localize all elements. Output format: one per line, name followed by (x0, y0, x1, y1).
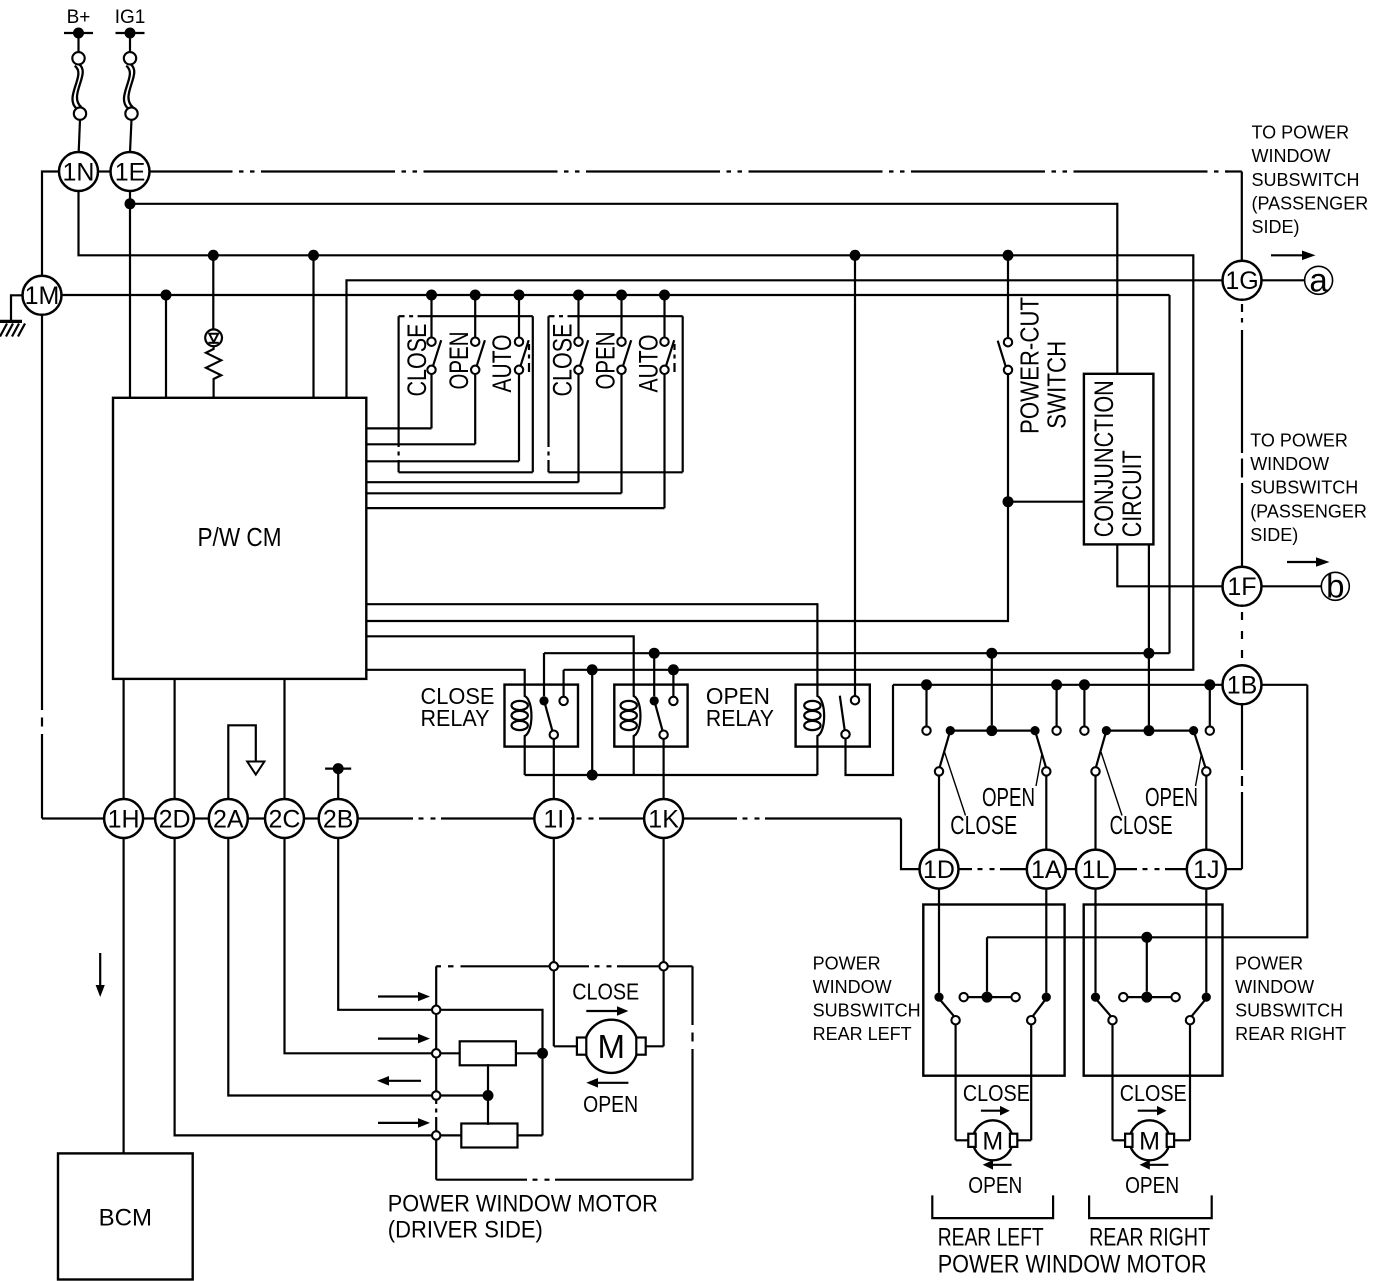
svg-text:AUTO: AUTO (633, 335, 663, 393)
wire 1J into box (1205, 889, 1207, 993)
K1 contacts (539, 696, 548, 705)
switch CLOSE (main unit 2) (573, 290, 584, 301)
switch blade CLOSE (rear left) (940, 731, 951, 768)
wire K3 to 1B bus (846, 685, 894, 775)
dashed wire 1F to 1B (1241, 612, 1243, 620)
svg-text:AUTO: AUTO (487, 335, 517, 393)
relay K3 box (796, 685, 870, 747)
connector 1A (1027, 850, 1066, 889)
terminal a (1305, 266, 1333, 294)
svg-text:OPEN: OPEN (1145, 782, 1198, 812)
svg-text:OPEN: OPEN (444, 332, 474, 390)
svg-text:WINDOW: WINDOW (1250, 454, 1329, 474)
wire conjunction to 1F (1117, 544, 1222, 586)
connector 1N (59, 152, 98, 191)
node (1141, 932, 1152, 943)
label OPEN + arrow (992, 1164, 1012, 1166)
svg-text:1N: 1N (63, 158, 95, 186)
wire to 1J (1205, 776, 1207, 850)
svg-text:CLOSE: CLOSE (1120, 1080, 1187, 1106)
connector 2C (265, 799, 304, 838)
BCM box U3 (58, 1153, 193, 1279)
connector 1F (1223, 567, 1262, 606)
connector 1I (534, 799, 573, 838)
rear left motor M2 (956, 1139, 969, 1141)
wire bus down right side (1168, 295, 1170, 653)
svg-text:WINDOW: WINDOW (1252, 146, 1331, 166)
wire 1G to a (1262, 279, 1305, 281)
svg-text:1E: 1E (115, 158, 146, 186)
rear left lower switch (934, 993, 943, 1002)
rear right lower switch (1091, 993, 1100, 1002)
wire K2 NO contact (672, 670, 674, 697)
svg-text:REAR RIGHT: REAR RIGHT (1089, 1223, 1210, 1251)
net: P/W CM to 1G line (347, 280, 1223, 398)
terminal b (1321, 572, 1349, 600)
svg-text:OPEN: OPEN (968, 1172, 1022, 1198)
svg-text:POWER: POWER (813, 954, 881, 974)
switch CLOSE (main unit 1) (426, 290, 437, 301)
rear right motor M3 (1113, 1139, 1126, 1141)
leader lines + labels (1101, 752, 1122, 816)
connector 1D (920, 850, 959, 889)
flow arrows (378, 995, 419, 997)
svg-text:1F: 1F (1227, 573, 1256, 601)
internal resistor network (440, 1010, 542, 1049)
svg-text:CIRCUIT: CIRCUIT (1117, 450, 1147, 537)
wire (130, 120, 132, 152)
svg-text:IG1: IG1 (115, 7, 146, 28)
svg-text:B+: B+ (67, 7, 91, 28)
rear left subswitch upper contacts (921, 679, 932, 690)
svg-text:1D: 1D (923, 856, 955, 884)
rear right subswitch upper contacts (1079, 679, 1090, 690)
svg-text:SWITCH: SWITCH (1042, 341, 1072, 429)
svg-text:SUBSWITCH: SUBSWITCH (1250, 478, 1358, 498)
svg-text:SUBSWITCH: SUBSWITCH (1235, 1001, 1343, 1021)
node (1003, 496, 1014, 507)
svg-text:WINDOW: WINDOW (813, 977, 892, 997)
main switch unit box (549, 315, 555, 317)
motor unit terminals top (550, 962, 558, 970)
resistor R2 (460, 1041, 516, 1065)
svg-text:TO POWER: TO POWER (1250, 431, 1348, 451)
motor terminals (432, 1006, 440, 1014)
svg-text:CLOSE: CLOSE (572, 979, 639, 1005)
wire K1 coil bottom (524, 747, 526, 775)
svg-text:WINDOW: WINDOW (1235, 977, 1314, 997)
rear right subswitch box (1084, 905, 1223, 1076)
svg-text:SIDE): SIDE) (1250, 525, 1298, 545)
svg-text:2C: 2C (269, 805, 301, 833)
wire 2A to motor (228, 838, 431, 1096)
node (537, 1048, 548, 1059)
ground bus from 1M (62, 294, 1170, 296)
connector 2D (155, 799, 194, 838)
wire power-cut to P/W CM (366, 374, 1008, 621)
driver window motor M1 (553, 971, 555, 1047)
wire 1M down to 1H (dash-dot) (41, 315, 43, 710)
connector 1H (104, 799, 143, 838)
svg-text:1J: 1J (1193, 856, 1219, 884)
wire K2 coil bottom (633, 747, 635, 775)
svg-text:OPEN: OPEN (1125, 1172, 1179, 1198)
svg-text:BCM: BCM (99, 1205, 152, 1232)
wire K2 to 1K (662, 739, 664, 799)
svg-text:a: a (1309, 262, 1328, 299)
svg-text:1I: 1I (543, 805, 564, 833)
resistor R3 (461, 1124, 517, 1148)
joint symbol above 2B (337, 769, 339, 799)
wire to 1D (938, 776, 940, 850)
switch AUTO (main unit 2) (659, 290, 670, 301)
svg-text:1L: 1L (1082, 856, 1110, 884)
node (1143, 648, 1154, 659)
svg-text:1G: 1G (1225, 267, 1258, 295)
svg-text:CONJUNCTION: CONJUNCTION (1089, 380, 1119, 537)
wire 1K to motor (662, 838, 664, 962)
open relay coil (634, 685, 641, 747)
svg-text:REAR LEFT: REAR LEFT (813, 1024, 912, 1044)
connector 1B (1223, 665, 1262, 704)
svg-text:CLOSE: CLOSE (402, 324, 432, 397)
svg-text:1A: 1A (1031, 856, 1062, 884)
wire to 1L (1094, 776, 1096, 850)
conjunction circuit box U2 (1084, 374, 1154, 545)
wire 1D into box (938, 889, 940, 993)
close relay K1 box (505, 685, 579, 747)
wire 2B to motor (338, 838, 432, 1010)
left terminal edge (435, 966, 437, 1005)
node (1003, 250, 1014, 261)
wire chain to 1D (901, 819, 919, 870)
switch OPEN (main unit 1) (470, 290, 481, 301)
wires P/W CM to connectors (122, 679, 124, 799)
fuse F2 (IG1) (124, 52, 136, 64)
connector 2B (319, 799, 358, 838)
power-cut switch S7 (1007, 255, 1009, 338)
svg-text:CLOSE: CLOSE (963, 1080, 1030, 1106)
node (850, 250, 861, 261)
node: 1E branch (125, 198, 136, 209)
svg-text:P/W CM: P/W CM (198, 522, 282, 552)
wire 1M to ground (11, 295, 23, 321)
svg-text:(DRIVER SIDE): (DRIVER SIDE) (388, 1216, 543, 1243)
svg-text:POWER: POWER (1235, 954, 1303, 974)
wire to P/W CM pin (312, 255, 314, 397)
label OPEN + arrow (1149, 1164, 1169, 1166)
wire 1E branch to conjunction circuit (130, 204, 1117, 374)
node (587, 664, 598, 675)
connector 1L (1076, 850, 1115, 889)
wire 1J up to 1B (dash-dot) (1226, 868, 1242, 870)
svg-text:RELAY: RELAY (421, 705, 490, 731)
wire (653, 653, 655, 696)
connector 1M (23, 276, 62, 315)
open relay K2 box (614, 685, 687, 747)
switch blade OPEN (rear right) (1194, 731, 1206, 768)
indicator diode D1 (212, 255, 214, 329)
connector 1E (111, 152, 150, 191)
connector 1K (644, 799, 683, 838)
wire 1N left to 1M (42, 172, 59, 276)
wire 1H to BCM (122, 838, 124, 1153)
node (208, 250, 219, 261)
flow arrow (99, 953, 101, 986)
svg-text:OPEN: OPEN (583, 1091, 638, 1117)
svg-text:OPEN: OPEN (590, 332, 620, 390)
connector 2A (209, 799, 248, 838)
wire 2D to motor (175, 838, 432, 1135)
dash-dot wire 1G to 1F (1241, 304, 1243, 312)
svg-text:2D: 2D (159, 805, 191, 833)
svg-text:CLOSE: CLOSE (1110, 810, 1173, 840)
svg-text:SUBSWITCH: SUBSWITCH (813, 1001, 921, 1021)
wire (79, 120, 80, 152)
fuse F1 (B+) (72, 52, 84, 64)
label OPEN + arrow (597, 1082, 628, 1084)
switch AUTO (main unit 1) (514, 290, 525, 301)
wire 1N-1E (98, 170, 111, 172)
P/W CM module box U1 (113, 398, 366, 679)
relay contact net (ground side) (543, 652, 545, 655)
coil common rail (525, 774, 818, 776)
wire 1B bus down to rear switches (987, 685, 1307, 938)
svg-text:M: M (598, 1028, 626, 1065)
connector 1G (1223, 261, 1262, 300)
svg-text:1H: 1H (108, 805, 140, 833)
arrow to passenger subswitch (a) (1271, 254, 1303, 256)
svg-text:REAR LEFT: REAR LEFT (938, 1223, 1044, 1251)
main switch unit box (399, 315, 405, 317)
auto-switch mechanical link (dash-dot) (528, 344, 530, 350)
wire 1E down to P/W CM (129, 191, 131, 398)
svg-text:M: M (982, 1127, 1003, 1155)
switch blade OPEN (rear left) (1035, 731, 1046, 768)
svg-text:(PASSENGER: (PASSENGER (1250, 501, 1367, 521)
K2 contacts (650, 696, 659, 705)
wire to 1A (1045, 776, 1047, 850)
bracket rear right (1089, 1195, 1212, 1218)
wire 2C to motor (285, 838, 432, 1053)
1B bus (893, 684, 1223, 686)
resistor R1 (206, 346, 221, 381)
svg-text:M: M (1139, 1127, 1160, 1155)
wire 1F to b (1262, 585, 1322, 587)
svg-text:2A: 2A (213, 805, 244, 833)
svg-text:1M: 1M (25, 282, 60, 310)
wires between connectors (143, 817, 155, 819)
wire conjunction pin 2 down (1148, 544, 1150, 726)
svg-text:REAR RIGHT: REAR RIGHT (1235, 1024, 1346, 1044)
node (649, 648, 660, 659)
svg-text:2B: 2B (323, 805, 354, 833)
wire P/W CM to K2 coil (366, 636, 633, 685)
close relay coil (525, 685, 532, 747)
wire K1 to 1I (553, 739, 555, 799)
svg-text:1K: 1K (648, 805, 679, 833)
svg-text:b: b (1326, 568, 1344, 605)
connector 1J (1187, 850, 1226, 889)
wire bus to P/W CM (161, 290, 172, 301)
switch OPEN (main unit 2) (616, 290, 627, 301)
rear left subswitch box (923, 905, 1064, 1076)
net B+: 1N down/right bus (79, 191, 1194, 670)
K3 contacts (851, 696, 859, 704)
svg-text:POWER WINDOW MOTOR: POWER WINDOW MOTOR (388, 1191, 658, 1218)
svg-text:POWER WINDOW MOTOR: POWER WINDOW MOTOR (938, 1251, 1207, 1279)
leader lines + labels (945, 752, 966, 816)
svg-text:SIDE): SIDE) (1252, 217, 1300, 237)
arrow to passenger subswitch (b) (1287, 561, 1317, 563)
wires between connectors (959, 868, 973, 870)
wire 1L into box (1094, 889, 1096, 993)
svg-text:POWER-CUT: POWER-CUT (1014, 297, 1044, 434)
svg-text:OPEN: OPEN (982, 782, 1035, 812)
wire conjunction left pin (1008, 501, 1084, 503)
wire K3 coil bottom (816, 747, 818, 775)
svg-text:SUBSWITCH: SUBSWITCH (1252, 170, 1360, 190)
relay K3 coil (817, 685, 824, 747)
auto-switch mechanical link (dash-dot) (673, 344, 675, 350)
svg-text:(PASSENGER: (PASSENGER (1252, 194, 1369, 214)
internal ground arrow above 2A (228, 725, 256, 799)
wire 1A into box (1045, 889, 1047, 993)
svg-text:1B: 1B (1227, 672, 1258, 700)
wire P/W CM to K1 coil (366, 670, 524, 685)
svg-text:RELAY: RELAY (706, 705, 774, 731)
switch blade CLOSE (rear right) (1096, 731, 1107, 768)
wire K1 NO contact (562, 670, 564, 697)
wire P/W CM to K3 coil (366, 604, 817, 685)
svg-text:CLOSE: CLOSE (950, 810, 1017, 840)
bracket rear left (932, 1195, 1053, 1218)
driver motor unit outline (dash-dot) (436, 965, 441, 967)
wire 1I to motor (553, 838, 555, 962)
net IG1: 1E dash-dot line to 1G (150, 170, 1229, 172)
node (483, 1090, 494, 1101)
ground (0, 320, 22, 323)
node (986, 648, 997, 659)
node (668, 664, 679, 675)
wire K3 NO up to B+ net (854, 255, 856, 696)
svg-text:CLOSE: CLOSE (547, 324, 577, 397)
node (308, 250, 319, 261)
svg-text:TO POWER: TO POWER (1252, 122, 1350, 142)
